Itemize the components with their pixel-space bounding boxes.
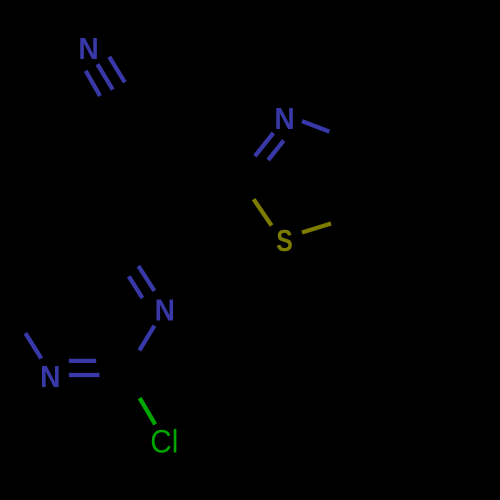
thiazole N3-C4 bond (half near N) [302, 121, 329, 132]
svg-text:Cl: Cl [150, 424, 178, 460]
pyrimidine N3-C2 bond (half near N) [139, 326, 154, 351]
C2-Cl bond (half near Cl) [140, 398, 156, 424]
pyrimidine N1-C6 bond (half near N) [25, 333, 41, 358]
thiazole S1-C5 bond (half near S) [302, 224, 331, 233]
svg-text:S: S [276, 223, 293, 257]
svg-text:N: N [155, 293, 175, 328]
thiazole S1-C2 bond (half near S) [254, 199, 272, 225]
nitrile triple bond left line [86, 71, 100, 96]
svg-text:N: N [274, 102, 294, 137]
pyrimidine C4=N3 double bond inner line [129, 276, 143, 298]
pyrimidine C4=N3 double bond main line [138, 266, 154, 291]
nitrile triple bond middle line [97, 64, 112, 89]
pyrimidine C2=N1 double bond main line [69, 373, 100, 377]
thiazole C2=N3 double bond main line [255, 133, 273, 156]
svg-text:N: N [40, 360, 60, 395]
svg-text:N: N [78, 32, 98, 67]
pyrimidine C2=N1 double bond inner line [69, 359, 96, 363]
thiazole C2=N3 double bond inner line [268, 141, 284, 161]
nitrile triple bond right line [109, 57, 125, 83]
